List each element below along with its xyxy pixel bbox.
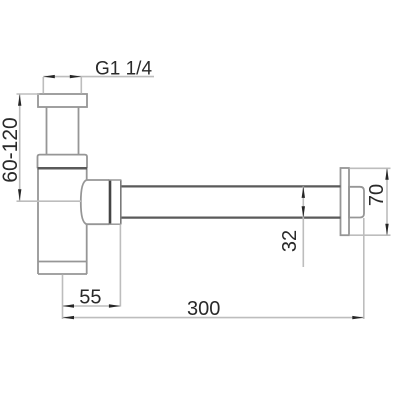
svg-text:55: 55 xyxy=(79,287,101,309)
svg-text:300: 300 xyxy=(187,298,220,320)
svg-text:60-120: 60-120 xyxy=(0,117,22,182)
svg-text:70: 70 xyxy=(366,184,388,206)
svg-text:G1 1/4: G1 1/4 xyxy=(95,59,152,80)
svg-text:32: 32 xyxy=(279,230,301,252)
